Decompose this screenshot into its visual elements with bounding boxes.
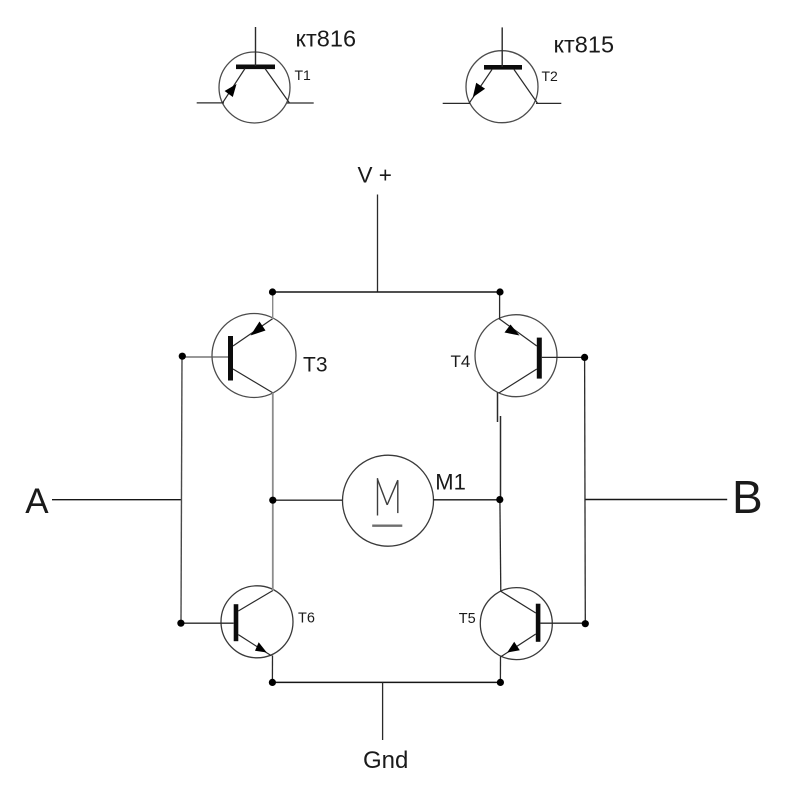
wire left column: [181, 356, 182, 623]
transistor T2: [443, 27, 562, 122]
svg-text:A: A: [25, 482, 49, 521]
junction bottom-left: [269, 679, 276, 686]
wire T3 emitter stem: [272, 393, 274, 501]
junction motor right: [496, 496, 503, 503]
svg-text:B: B: [732, 471, 763, 523]
wire T4 base lead: [542, 356, 585, 358]
svg-text:T1: T1: [295, 67, 312, 83]
wire top rail: [273, 291, 501, 293]
junction T3 base: [179, 353, 186, 360]
wire T6 collector stem: [272, 500, 274, 590]
svg-text:T3: T3: [303, 353, 328, 376]
junction bottom-right: [497, 679, 504, 686]
wire motor right: [433, 499, 499, 501]
wire T4 collector stem: [499, 292, 501, 319]
wire T6 base lead: [181, 622, 234, 624]
motor M1: [343, 455, 434, 546]
wire Gnd stem: [382, 682, 384, 740]
junction T4 base: [581, 354, 588, 361]
svg-text:T2: T2: [542, 68, 559, 84]
wire T5 base lead: [540, 622, 585, 624]
svg-text:M1: M1: [435, 470, 466, 495]
svg-text:кт815: кт815: [554, 32, 615, 58]
wire bottom rail: [272, 681, 500, 683]
svg-text:T5: T5: [459, 611, 476, 627]
svg-text:кт816: кт816: [296, 26, 357, 52]
wire T5 collector stem: [499, 500, 502, 592]
transistor T4: [475, 315, 557, 397]
svg-text:Gnd: Gnd: [363, 747, 408, 774]
transistor T3: [212, 314, 296, 398]
wire B lead: [585, 499, 727, 501]
wire T3 collector stem: [272, 292, 274, 319]
wire motor left: [273, 499, 343, 501]
junction T6 base: [177, 620, 184, 627]
junction motor left: [269, 497, 276, 504]
wire T3 base lead: [182, 356, 228, 358]
wire T6 emitter stem: [271, 656, 273, 683]
junction T5 base: [582, 620, 589, 627]
transistor T5: [480, 588, 552, 660]
wire V+ stem: [377, 195, 379, 293]
svg-text:V +: V +: [358, 162, 392, 187]
transistor T1: [197, 27, 314, 123]
wire right column: [584, 357, 587, 623]
junction top-left: [269, 288, 276, 295]
junction top-right: [496, 288, 503, 295]
wire T4 emitter stem: [497, 393, 499, 423]
svg-text:T6: T6: [298, 611, 315, 627]
svg-text:T4: T4: [451, 352, 471, 371]
transistor T6: [221, 586, 293, 658]
wire A lead: [52, 499, 182, 501]
wire T5 emitter stem: [499, 657, 501, 683]
